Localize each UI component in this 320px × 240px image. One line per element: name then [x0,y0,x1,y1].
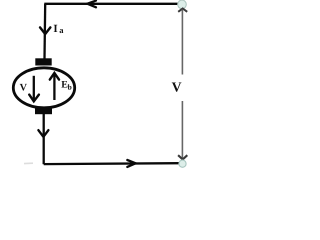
arrow: armature voltage V pointing down [29,76,39,102]
current arrow Ia head (pointing down) [40,27,50,34]
svg-text:a: a [59,25,64,35]
motor M: top brush block [35,58,51,65]
svg-text:I: I [53,23,57,35]
wire: left vertical from top corner down to motor top brush [43,4,46,59]
svg-text:b: b [68,83,72,92]
supply voltage arrow: lower head (pointing down at terminal) [178,155,187,159]
current arrowhead on bottom-left wire (pointing down) [38,130,48,137]
faint wire stub left of bottom corner [24,162,33,164]
terminal: top right [178,0,187,9]
wire: bottom horizontal [44,162,179,165]
current direction arrowhead on top wire (pointing left) [87,1,96,8]
motor M: armature ellipse [13,68,74,108]
svg-text:V: V [172,80,182,95]
supply voltage arrow: upper line segment [181,10,183,75]
wire: left vertical from motor bottom brush to bottom corner [43,114,45,164]
wire: top horizontal [44,3,178,5]
supply voltage arrow: lower line segment [181,101,183,159]
arrow: back-EMF Eb pointing up [50,73,59,100]
current direction arrowhead on bottom wire (pointing right) [127,160,135,167]
motor M: bottom brush block [35,108,52,114]
svg-text:V: V [20,82,28,93]
supply voltage arrow: upper head (pointing up at terminal) [178,9,187,12]
terminal: bottom right [179,160,186,167]
